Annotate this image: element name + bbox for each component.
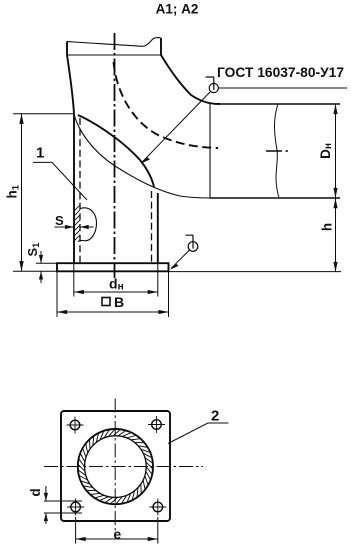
wire elbow saddle weld curve (78, 115, 154, 187)
svg-text:ГОСТ 16037-80-У17: ГОСТ 16037-80-У17 (217, 64, 344, 80)
svg-text:e: e (113, 526, 121, 542)
dimension B extensions (57, 271, 169, 317)
flange plate (61, 411, 170, 521)
node pipe centerline tick (266, 150, 288, 152)
wire pipe top line (214, 103, 340, 105)
dimension e line (76, 538, 158, 540)
node pipe break wavy line (274, 104, 279, 198)
dimension dn line (74, 291, 158, 293)
wire pipe left inner wall hidden (79, 118, 81, 262)
svg-text:d: d (28, 488, 43, 496)
pipe wall hatch (78, 429, 153, 504)
pipe bore outer circle (78, 429, 153, 504)
wire pipe right outer wall (157, 193, 159, 263)
dimension h line (335, 198, 337, 272)
node bottom view vertical centerline (114, 399, 116, 536)
node stub left edge (66, 42, 68, 56)
dimension dn extensions (74, 263, 158, 296)
svg-text:А1; А2: А1; А2 (156, 2, 199, 17)
wire pipe bottom line (210, 197, 340, 199)
wire pipe left outer wall (73, 114, 75, 263)
bolt hole bottom-left (67, 499, 84, 516)
node stub wavy break top (67, 38, 161, 47)
dimension e extensions (76, 517, 158, 544)
dimension h1 extension top (13, 113, 74, 115)
wire elbow bore hidden line (114, 62, 219, 148)
node stub right edge (160, 38, 162, 55)
dimension Dn line (335, 104, 337, 198)
wire weld seam top stub (67, 54, 161, 56)
svg-text:1: 1 (36, 145, 44, 162)
node bottom view horizontal centerline (44, 466, 203, 468)
dimension h1 line (21, 114, 23, 271)
dimension S1 extension (36, 262, 57, 264)
dimension d arrows (45, 486, 47, 524)
dimension B line (57, 311, 169, 313)
dimension S arrows (55, 226, 94, 228)
dimension h1 extension bottom (13, 270, 57, 272)
flange side view body (57, 263, 169, 271)
pipe bore inner circle (85, 436, 147, 498)
wire pipe weld seam (209, 104, 211, 199)
dimension h extension bottom (169, 271, 342, 273)
dimension S1 arrows (40, 251, 42, 283)
section S hatch (62, 194, 86, 258)
leader to saddle weld (143, 91, 211, 161)
svg-text:2: 2 (211, 408, 219, 425)
svg-text:В: В (114, 294, 124, 310)
dimension d tangent lines (44, 501, 82, 513)
wire elbow outer curve (161, 55, 220, 104)
node vertical centerline (114, 33, 116, 278)
wire pipe right inner wall hidden (151, 191, 153, 262)
wire elbow left inner curve (67, 55, 74, 114)
weld symbol flange circle (185, 235, 197, 251)
wire label shelf line (218, 87, 347, 89)
leader to flange weld (171, 250, 189, 268)
weld symbol GOST circle (206, 77, 219, 93)
bolt hole top-left (67, 417, 84, 434)
label square B (102, 298, 110, 306)
bolt hole top-right (148, 416, 165, 433)
bolt hole bottom-right (149, 499, 166, 516)
wire elbow bottom contour (74, 114, 210, 198)
svg-text:S: S (55, 213, 64, 228)
section boundary arc (81, 208, 97, 241)
svg-text:h: h (320, 223, 335, 231)
